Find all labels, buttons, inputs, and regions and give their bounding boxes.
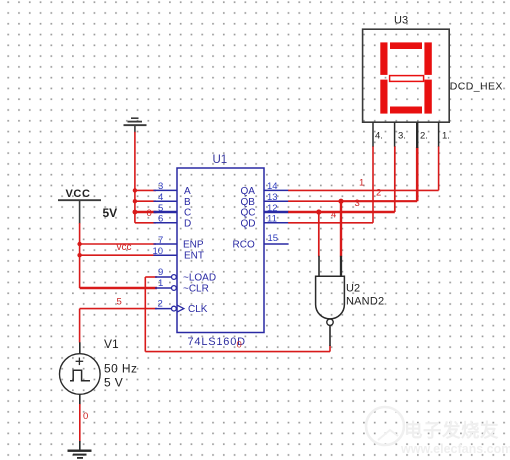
svg-text:2: 2	[158, 299, 163, 310]
svg-text:3: 3	[158, 181, 163, 192]
NAND U2 body	[316, 276, 345, 319]
clock source V1	[60, 342, 101, 404]
svg-text:ENP: ENP	[183, 240, 204, 251]
wire net 2: QB to display pin 2 and NAND input	[288, 147, 417, 257]
U1 left pin stubs	[154, 190, 178, 308]
svg-text:DCD_HEX: DCD_HEX	[450, 81, 503, 93]
svg-text:U1: U1	[213, 154, 228, 166]
svg-text:4.: 4.	[375, 131, 383, 142]
svg-text:QA: QA	[241, 186, 256, 197]
pin 1 bubble	[172, 286, 177, 291]
svg-text:A: A	[184, 186, 191, 197]
svg-text:1.: 1.	[442, 131, 450, 142]
U3 pin stubs	[373, 122, 439, 148]
svg-text:1: 1	[158, 278, 163, 289]
pin 9 bubble	[172, 275, 177, 280]
power VCC symbol	[58, 200, 101, 223]
svg-text:QB: QB	[241, 197, 256, 208]
svg-text:U3: U3	[394, 15, 408, 27]
segment a	[390, 42, 422, 49]
svg-text:9: 9	[158, 267, 163, 278]
svg-text:10: 10	[153, 246, 164, 257]
U1 pin numbers right	[267, 181, 278, 244]
segment e	[380, 80, 387, 114]
ground GND2 (bottom)	[68, 441, 92, 459]
U1 pin numbers left	[153, 181, 164, 310]
svg-text:U2: U2	[346, 283, 360, 295]
svg-text:D: D	[184, 218, 191, 229]
segment c	[424, 80, 431, 114]
NAND U2 input pin A	[318, 256, 320, 276]
segment b	[424, 42, 431, 75]
svg-text:50 Hz: 50 Hz	[104, 362, 137, 376]
watermark	[366, 407, 510, 456]
wire net 4: QD to display pin 4	[288, 146, 373, 223]
U1 right pin stubs	[264, 190, 289, 244]
junction dots on net vcc	[77, 242, 81, 258]
svg-text:3: 3	[355, 198, 360, 209]
wire net 5: clock V1 to CLK pin	[80, 309, 157, 343]
svg-text:13: 13	[267, 192, 278, 203]
wire net 3: QC to display pin 3 and NAND input	[288, 146, 395, 257]
svg-text:~CLR: ~CLR	[183, 284, 209, 295]
svg-text:电子发烧友: 电子发烧友	[404, 420, 499, 441]
U3 pin numbers	[375, 131, 450, 142]
svg-text:5: 5	[117, 297, 122, 308]
counter U1 74LS160D	[177, 168, 264, 333]
pin 2 bubble	[172, 306, 177, 311]
svg-text:0: 0	[83, 411, 88, 422]
svg-text:15: 15	[268, 233, 279, 244]
wire net 0 vertical from GND1 to U1 data inputs	[135, 132, 157, 223]
svg-text:QD: QD	[241, 218, 256, 229]
svg-text:6: 6	[158, 214, 163, 225]
segment f	[380, 42, 387, 75]
svg-text:ENT: ENT	[184, 251, 204, 262]
wire NAND output feedback to ~LOAD	[145, 277, 330, 352]
svg-text:5V: 5V	[103, 206, 118, 220]
svg-text:V1: V1	[104, 337, 119, 351]
svg-text:QC: QC	[241, 208, 256, 219]
svg-text:www.elecfans.com: www.elecfans.com	[400, 442, 510, 456]
CLK edge triangle	[177, 305, 184, 312]
svg-text:4: 4	[331, 210, 336, 221]
svg-text:2.: 2.	[420, 131, 428, 142]
wire net 0: V1 minus to ground	[79, 404, 81, 442]
svg-text:0: 0	[147, 208, 152, 219]
NAND U2 output pin	[329, 326, 331, 346]
junction dot net 3	[316, 209, 321, 214]
svg-text:vcc: vcc	[117, 242, 132, 253]
svg-text:C: C	[184, 208, 191, 219]
U1 pin names	[183, 186, 256, 315]
svg-text:3.: 3.	[398, 131, 406, 142]
junction dots on net 0	[133, 188, 138, 214]
NAND U2 output bubble	[327, 319, 333, 325]
V1 labels	[104, 337, 137, 390]
svg-text:14: 14	[267, 181, 278, 192]
ground GND1 (flipped, top)	[124, 117, 147, 132]
svg-text:~LOAD: ~LOAD	[183, 273, 216, 284]
wire net 1: QA to display pin 1	[288, 146, 438, 190]
svg-text:7: 7	[158, 235, 163, 246]
svg-text:1: 1	[359, 178, 364, 189]
svg-text:B: B	[184, 197, 191, 208]
segment d	[390, 107, 422, 114]
wire net vcc: VCC to ENP, ENT, ~CLR	[80, 223, 157, 288]
svg-text:2: 2	[376, 188, 381, 199]
svg-text:RCO: RCO	[233, 240, 255, 251]
svg-text:12: 12	[267, 203, 278, 214]
NAND U2 input pin B	[340, 256, 342, 276]
svg-text:4: 4	[158, 192, 163, 203]
svg-text:5: 5	[158, 203, 163, 214]
svg-text:0: 0	[237, 340, 242, 351]
svg-text:NAND2: NAND2	[346, 296, 384, 308]
junction dot net 2	[338, 199, 343, 204]
svg-text:11: 11	[267, 214, 277, 225]
svg-text:5 V: 5 V	[104, 376, 123, 390]
segment g (off)	[390, 76, 424, 82]
svg-text:VCC: VCC	[66, 188, 91, 200]
svg-text:CLK: CLK	[188, 304, 208, 315]
